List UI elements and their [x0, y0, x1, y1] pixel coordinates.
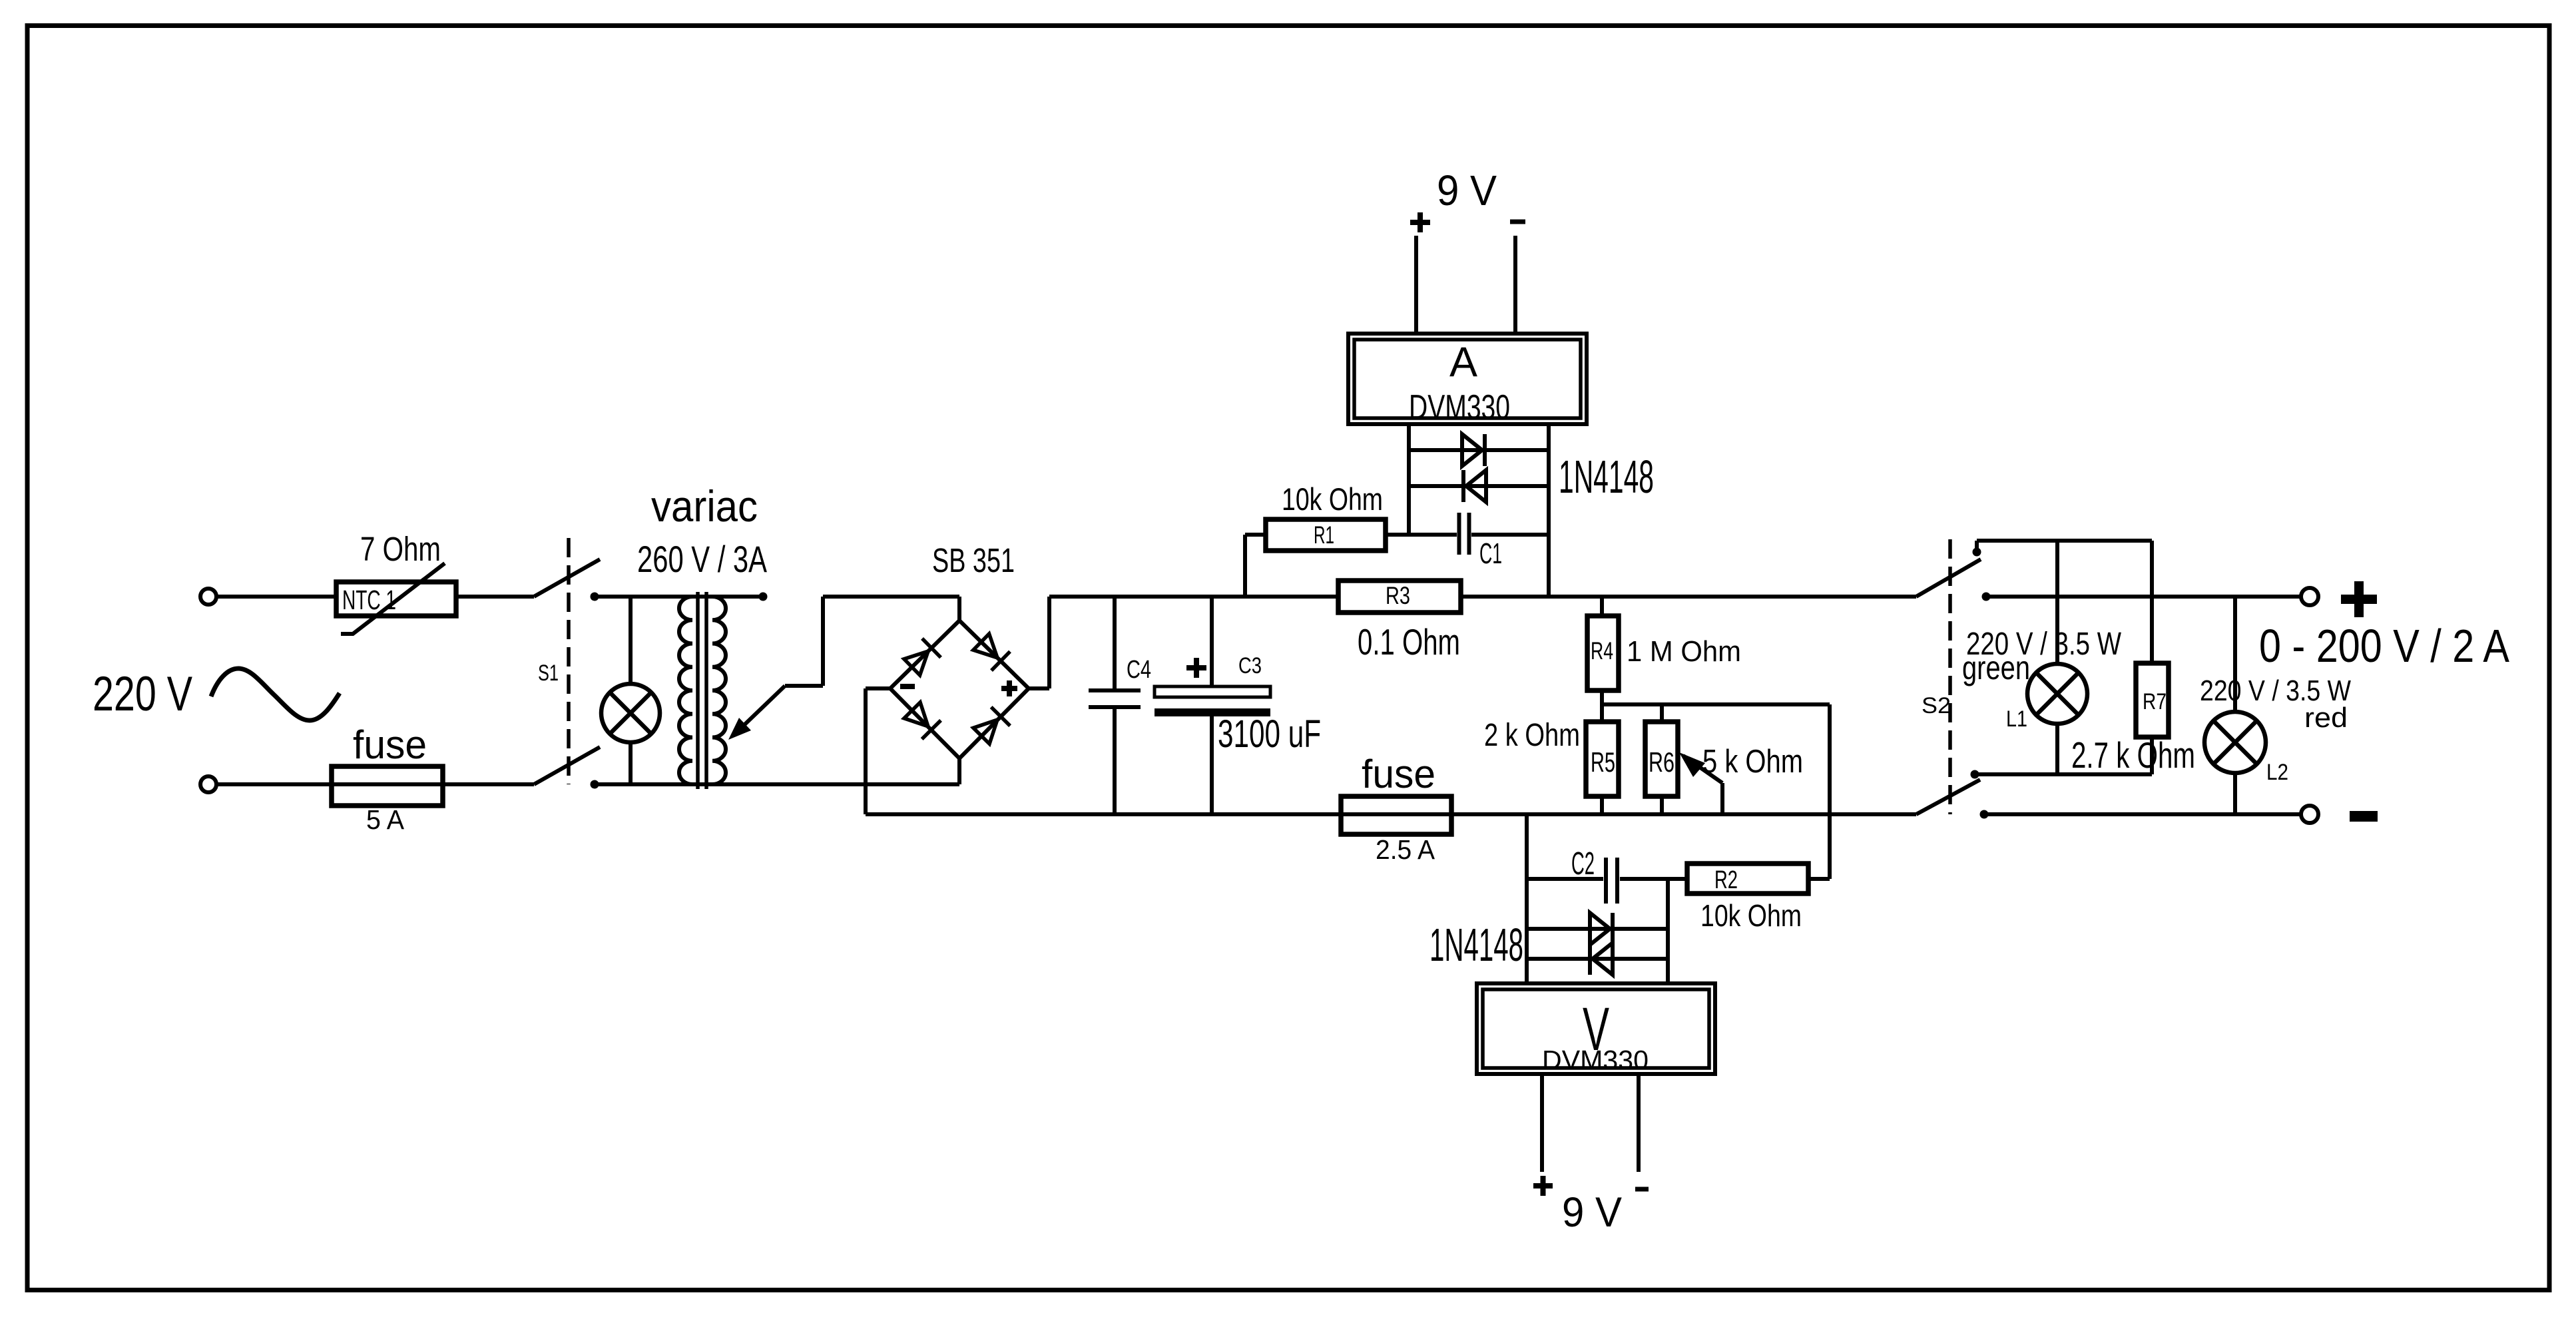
- svg-text:R6: R6: [1649, 746, 1674, 778]
- svg-text:220 V: 220 V: [93, 667, 192, 721]
- svg-text:red: red: [2304, 702, 2348, 733]
- svg-text:R5: R5: [1591, 746, 1615, 778]
- svg-text:S2: S2: [1922, 693, 1951, 718]
- svg-text:10k Ohm: 10k Ohm: [1700, 898, 1802, 933]
- svg-text:green: green: [1962, 649, 2030, 686]
- svg-text:DVM330: DVM330: [1409, 388, 1510, 427]
- svg-text:S1: S1: [538, 660, 559, 686]
- svg-text:SB 351: SB 351: [932, 541, 1015, 579]
- svg-text:fuse: fuse: [353, 722, 427, 767]
- svg-text:R3: R3: [1386, 582, 1410, 609]
- svg-text:1 M Ohm: 1 M Ohm: [1627, 635, 1741, 668]
- svg-text:R1: R1: [1314, 521, 1334, 549]
- svg-text:R2: R2: [1714, 866, 1738, 894]
- svg-text:260 V / 3A: 260 V / 3A: [637, 538, 767, 580]
- svg-text:2.7 k Ohm: 2.7 k Ohm: [2071, 734, 2195, 776]
- svg-text:variac: variac: [651, 481, 758, 531]
- svg-text:5 k Ohm: 5 k Ohm: [1702, 744, 1803, 780]
- svg-text:3100 uF: 3100 uF: [1218, 712, 1321, 756]
- svg-text:2 k Ohm: 2 k Ohm: [1484, 718, 1580, 753]
- svg-text:9 V: 9 V: [1562, 1189, 1622, 1236]
- svg-text:fuse: fuse: [1362, 752, 1435, 796]
- svg-text:2.5 A: 2.5 A: [1376, 834, 1435, 865]
- svg-text:0.1 Ohm: 0.1 Ohm: [1358, 621, 1460, 662]
- svg-text:5 A: 5 A: [366, 804, 405, 835]
- svg-text:1N4148: 1N4148: [1429, 919, 1523, 971]
- svg-text:A: A: [1449, 339, 1477, 386]
- svg-text:C4: C4: [1127, 656, 1151, 684]
- svg-text:1N4148: 1N4148: [1559, 451, 1654, 503]
- svg-text:7 Ohm: 7 Ohm: [360, 530, 441, 568]
- svg-text:R4: R4: [1591, 637, 1613, 664]
- svg-text:DVM330: DVM330: [1542, 1045, 1649, 1075]
- svg-text:10k Ohm: 10k Ohm: [1282, 481, 1383, 517]
- svg-text:0 - 200 V / 2 A: 0 - 200 V / 2 A: [2259, 620, 2509, 672]
- svg-text:R7: R7: [2143, 689, 2167, 714]
- svg-text:9 V: 9 V: [1437, 166, 1497, 214]
- svg-text:L1: L1: [2006, 706, 2027, 732]
- svg-text:C3: C3: [1238, 653, 1262, 678]
- svg-text:L2: L2: [2266, 760, 2288, 785]
- svg-text:C1: C1: [1479, 537, 1502, 570]
- svg-text:NTC 1: NTC 1: [342, 585, 396, 615]
- svg-text:C2: C2: [1571, 846, 1595, 882]
